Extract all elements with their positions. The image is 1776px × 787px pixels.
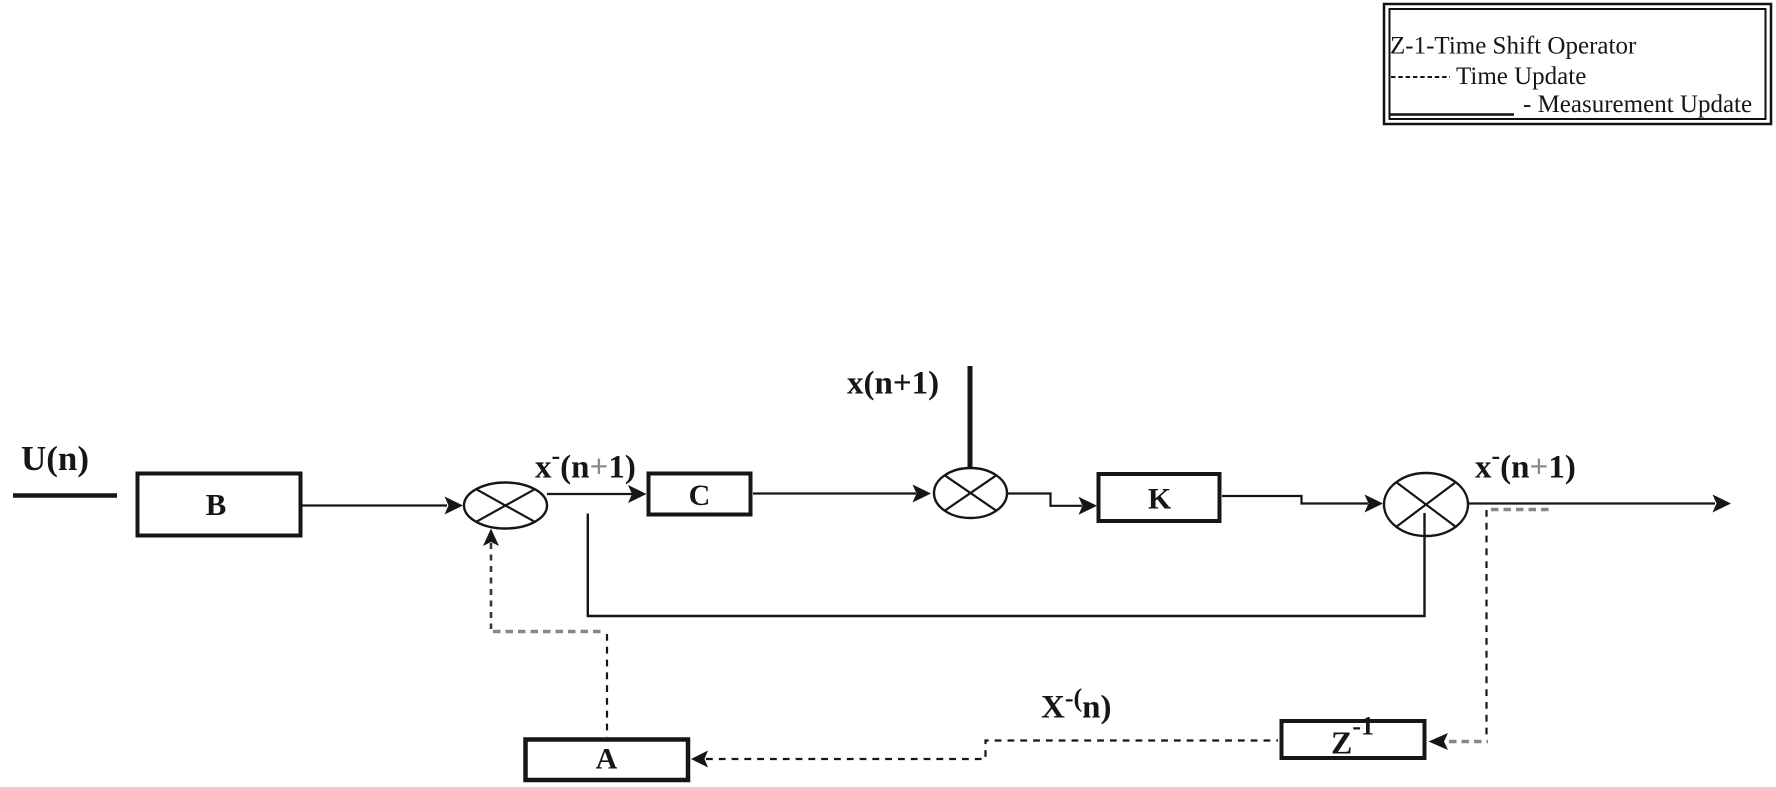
gray dashed wire up into J1 <box>490 543 493 629</box>
input stub wire under U(n) <box>13 493 117 498</box>
svg-text:K: K <box>1148 483 1172 516</box>
svg-text:A: A <box>596 743 618 776</box>
svg-text:C: C <box>689 479 711 512</box>
black dashed time-update wire from output node down to Z-1 <box>1485 510 1487 740</box>
block B <box>138 474 301 536</box>
block A <box>526 740 689 781</box>
svg-text:- Measurement Update: - Measurement Update <box>1523 91 1752 118</box>
legend solid line sample (Measurement Update) <box>1389 113 1514 116</box>
block C <box>649 474 751 515</box>
wire C to junction J2 <box>753 485 931 503</box>
multiplier junction J2 <box>934 468 1007 518</box>
dashed time-update arrowhead into J1 bottom <box>483 529 499 547</box>
gray dashed wire horizontal A-path corner <box>493 630 604 633</box>
legend frame inner <box>1390 9 1766 119</box>
arrowhead into Z-1 <box>1429 733 1449 750</box>
svg-text:Time Update: Time Update <box>1456 63 1586 90</box>
wire J1 to block C <box>547 485 647 503</box>
svg-text:U(n): U(n) <box>21 439 89 478</box>
wire K to junction J3 <box>1222 495 1383 513</box>
block K <box>1099 474 1220 521</box>
black dashed wire from block A up <box>606 634 608 737</box>
legend frame outer <box>1384 4 1771 124</box>
gray dashed stub into Z-1 <box>1449 740 1488 743</box>
wire B to junction J1 <box>302 497 463 515</box>
output wire from J3 <box>1468 495 1731 513</box>
dashed wire Z-1 to block A <box>691 741 1278 768</box>
wire J2 to block K <box>1007 494 1097 515</box>
solid measurement-update feedback wire J3 to node after J1 <box>588 513 1425 616</box>
svg-text:x(n+1): x(n+1) <box>847 366 939 402</box>
measurement input wire x(n+1) into J2 <box>968 366 973 469</box>
block Z-1 (time shift) <box>1282 712 1425 761</box>
svg-text:B: B <box>206 487 227 522</box>
multiplier junction J1 <box>464 483 547 529</box>
legend dashed line sample (Time Update) <box>1391 76 1450 78</box>
gray dashed stub at output node <box>1491 508 1550 511</box>
multiplier junction J3 <box>1384 473 1468 536</box>
svg-text:Z-1-Time Shift Operator: Z-1-Time Shift Operator <box>1390 33 1637 60</box>
